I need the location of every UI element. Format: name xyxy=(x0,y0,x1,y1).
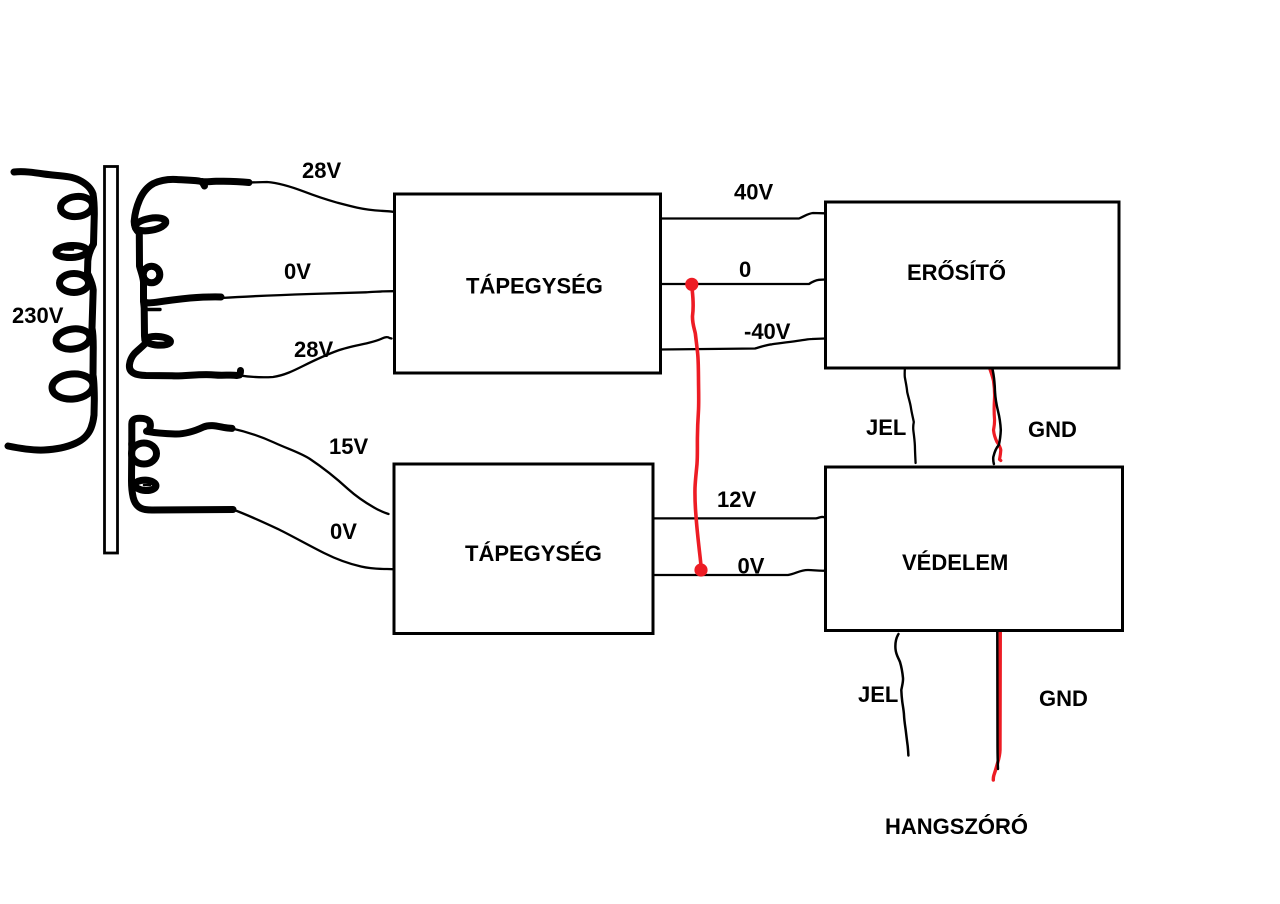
svg-text:0V: 0V xyxy=(284,259,311,284)
svg-text:28V: 28V xyxy=(302,158,341,183)
svg-text:JEL: JEL xyxy=(858,682,898,707)
svg-text:-40V: -40V xyxy=(744,319,791,344)
svg-text:15V: 15V xyxy=(329,434,368,459)
svg-text:ERŐSÍTŐ: ERŐSÍTŐ xyxy=(907,260,1006,285)
svg-text:VÉDELEM: VÉDELEM xyxy=(902,550,1008,575)
svg-text:12V: 12V xyxy=(717,487,756,512)
svg-text:HANGSZÓRÓ: HANGSZÓRÓ xyxy=(885,814,1028,839)
svg-text:0V: 0V xyxy=(738,554,765,579)
svg-text:JEL: JEL xyxy=(866,415,906,440)
svg-text:GND: GND xyxy=(1028,417,1077,442)
svg-text:TÁPEGYSÉG: TÁPEGYSÉG xyxy=(466,274,603,299)
svg-text:0: 0 xyxy=(739,257,751,282)
svg-text:GND: GND xyxy=(1039,686,1088,711)
svg-text:TÁPEGYSÉG: TÁPEGYSÉG xyxy=(465,541,602,566)
svg-text:28V: 28V xyxy=(294,337,333,362)
svg-text:0V: 0V xyxy=(330,519,357,544)
svg-text:230V: 230V xyxy=(12,303,64,328)
svg-text:40V: 40V xyxy=(734,180,773,205)
